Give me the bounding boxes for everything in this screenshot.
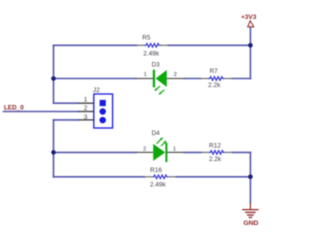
svg-text:2.2k: 2.2k — [209, 156, 222, 163]
svg-text:R5: R5 — [142, 35, 151, 42]
svg-text:2.49k: 2.49k — [150, 182, 167, 189]
svg-text:R16: R16 — [150, 167, 162, 174]
svg-text:D3: D3 — [152, 62, 161, 69]
svg-text:2: 2 — [174, 72, 177, 78]
svg-text:2: 2 — [84, 105, 88, 112]
svg-text:R7: R7 — [210, 68, 219, 75]
svg-text:J2: J2 — [93, 87, 100, 94]
svg-text:R12: R12 — [209, 143, 221, 150]
svg-text:+3V3: +3V3 — [241, 14, 257, 21]
svg-text:1: 1 — [84, 97, 88, 104]
svg-text:1: 1 — [144, 72, 147, 78]
svg-text:D4: D4 — [152, 130, 161, 137]
svg-text:LED_0: LED_0 — [4, 104, 24, 111]
svg-text:1: 1 — [173, 147, 176, 153]
svg-text:2.2k: 2.2k — [208, 82, 221, 89]
svg-text:2.49k: 2.49k — [143, 50, 160, 57]
svg-text:2: 2 — [143, 147, 146, 153]
svg-text:3: 3 — [84, 114, 88, 121]
svg-text:GND: GND — [243, 220, 258, 227]
